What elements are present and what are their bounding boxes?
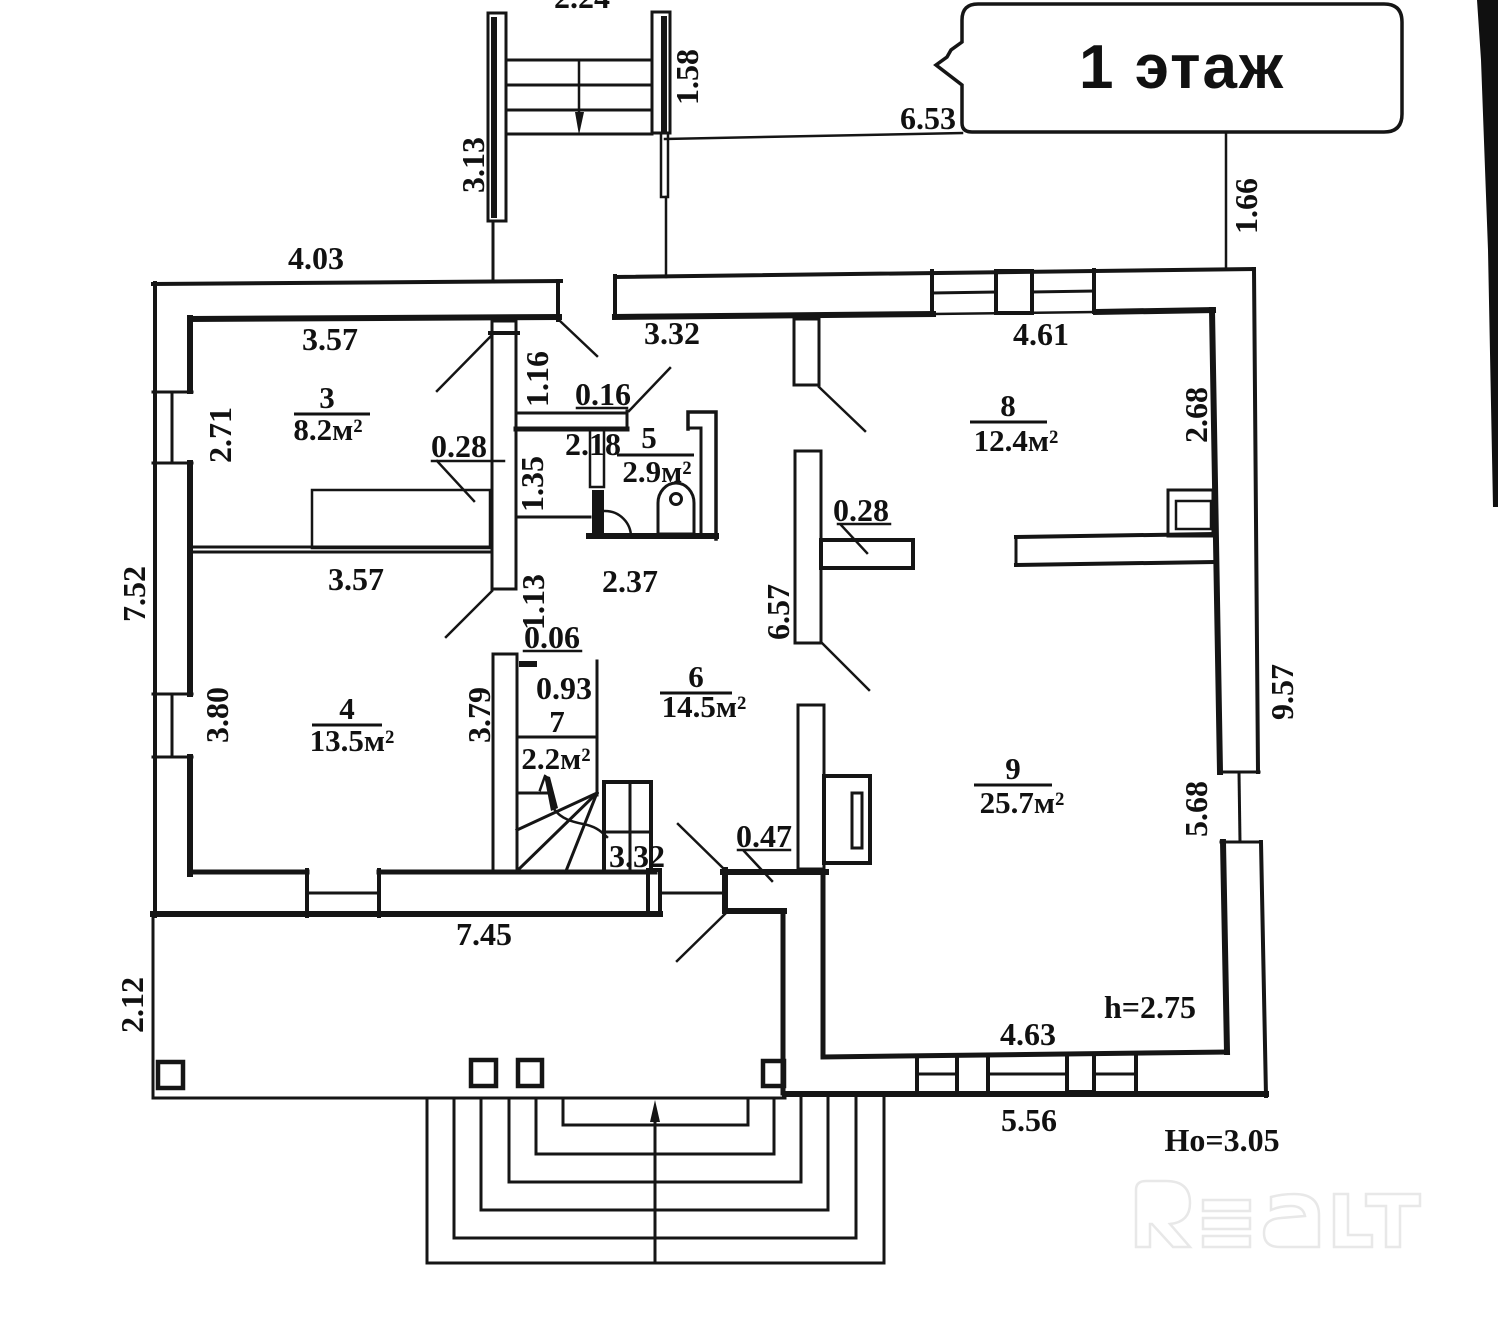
top porch right rail (652, 12, 670, 133)
toilet (658, 483, 694, 534)
room9 south window A glass (917, 1073, 957, 1076)
porch step U2 (536, 1098, 774, 1154)
top wall door jamb right (613, 276, 617, 317)
svg-text:14.5м²: 14.5м² (662, 689, 747, 724)
porch step U3 (509, 1098, 801, 1182)
porch step U4 (481, 1098, 828, 1210)
svg-text:1 этаж: 1 этаж (1079, 33, 1285, 102)
shelf wall 0.16 top line (516, 412, 627, 415)
svg-text:6.53: 6.53 (900, 100, 956, 136)
leader 0.47 (738, 850, 790, 881)
svg-text:2.12: 2.12 (114, 977, 150, 1033)
top wall window jamb 1 (930, 271, 934, 314)
top porch left rail lower line (492, 221, 495, 280)
winder fan line 3 (566, 793, 597, 871)
svg-text:0.28: 0.28 (431, 428, 487, 464)
terrace left edge (152, 916, 155, 1098)
right wall inner line lower (1223, 842, 1227, 1052)
room7 right wall (596, 661, 599, 795)
callout bubble 1 etazh (936, 4, 1402, 132)
left wall window1 top crossing (153, 391, 192, 394)
entry pier room3 (492, 321, 516, 589)
room9 south pier 2 (1067, 1054, 1094, 1092)
svg-text:0.28: 0.28 (833, 492, 889, 528)
room7 tread line 1 (517, 736, 597, 739)
top wall window jamb 2 (1092, 270, 1096, 312)
leader 0.28 right (838, 524, 890, 553)
svg-text:2.2м²: 2.2м² (521, 741, 590, 776)
underline 0.06 (524, 650, 581, 653)
top porch left rail (488, 13, 506, 221)
svg-text:0.93: 0.93 (536, 670, 592, 706)
alcove west wall (722, 870, 728, 911)
entry door leaf (560, 321, 597, 356)
top porch step 4 (506, 133, 652, 136)
room9 south window jamb 1 (915, 1056, 919, 1093)
svg-text:3.79: 3.79 (461, 687, 497, 743)
porch step U6 (427, 1098, 884, 1263)
room7 left wall (493, 654, 517, 871)
svg-text:3.80: 3.80 (199, 687, 235, 743)
winder fan line 2 (519, 793, 597, 869)
hall steps divider v (629, 782, 632, 872)
partition room8 room9 bottom line (1016, 562, 1213, 565)
right wall window top crossing (1220, 771, 1259, 774)
alcove shelf wall (725, 908, 784, 914)
alcove north wall (723, 869, 826, 875)
alcove door leaf upper (678, 824, 725, 870)
porch arrow shaft (654, 1112, 657, 1260)
svg-text:1.35: 1.35 (514, 456, 550, 512)
room9 south window B glass (988, 1073, 1067, 1076)
top porch step 1 (506, 59, 652, 62)
partition room3 room4 line a (190, 546, 492, 549)
passage east line / room9 west inner (821, 874, 826, 1055)
svg-text:2.24: 2.24 (554, 0, 610, 15)
shelf wall 0.16 bottom line (516, 427, 627, 432)
left wall outer line (153, 283, 157, 916)
left wall inner line seg3 (187, 757, 193, 874)
wall bar hall room9 (798, 705, 824, 869)
partition end cap (1015, 537, 1018, 565)
svg-text:3.32: 3.32 (644, 315, 700, 351)
top porch left rail stripe (491, 17, 497, 218)
toilet hole (671, 494, 682, 505)
top wall inner line right section b (1096, 310, 1213, 312)
room4 bottom window jamb left (305, 870, 309, 916)
left wall window1 bottom crossing (153, 462, 192, 465)
terrace post 4 (763, 1061, 784, 1086)
svg-text:7.52: 7.52 (116, 566, 152, 622)
scan artifact right edge (1477, 0, 1498, 507)
hall south door threshold (663, 892, 723, 895)
left wall window2 top crossing (153, 693, 192, 696)
terrace post 2 (471, 1060, 496, 1086)
porch step U1 (563, 1098, 748, 1125)
svg-text:2.18: 2.18 (565, 426, 621, 462)
terrace bottom edge (153, 1097, 785, 1100)
stub wall middle (795, 451, 821, 643)
svg-text:13.5м²: 13.5м² (310, 723, 395, 758)
room9 door leaf (822, 643, 869, 690)
left wall inner line seg1 (187, 318, 193, 391)
tambour floor line (516, 516, 590, 519)
right wall window bottom crossing (1221, 841, 1261, 844)
top wall window B glass line (1032, 291, 1094, 292)
svg-text:2.68: 2.68 (1178, 387, 1214, 443)
room8 door leaf (819, 387, 865, 431)
dim line 6.53 (665, 133, 962, 139)
svg-text:6.57: 6.57 (760, 584, 796, 640)
room3 door leaf (437, 335, 492, 391)
top wall pier between windows (996, 271, 1032, 313)
top wall outer line left section (153, 281, 561, 284)
room9 south window jamb 6 (1134, 1053, 1138, 1093)
winder fan line 1 (517, 793, 597, 830)
shelf wall end cap (626, 411, 629, 429)
svg-text:2.71: 2.71 (202, 407, 238, 463)
entry pier cap line (490, 331, 518, 335)
room4 bottom window jamb right (377, 870, 381, 916)
stub wall room8 top (794, 319, 819, 385)
hall steps box (604, 782, 651, 872)
svg-text:0.47: 0.47 (736, 818, 792, 854)
top porch right rail stripe (661, 16, 667, 132)
svg-text:1.16: 1.16 (519, 351, 555, 407)
svg-text:7: 7 (549, 704, 565, 739)
room9 south pier 1 (957, 1055, 988, 1093)
hall south door jamb (648, 870, 660, 915)
fireplace slot (852, 793, 862, 848)
svg-text:9: 9 (1005, 751, 1021, 786)
wc west wall upper (590, 428, 604, 487)
svg-text:3: 3 (319, 380, 335, 415)
svg-text:2.9м²: 2.9м² (622, 454, 691, 489)
porch arrow head (650, 1100, 660, 1122)
right wall outer line lower (1261, 842, 1266, 1096)
alcove door leaf lower (677, 914, 725, 961)
left wall window2 glass (171, 694, 174, 757)
partition room8 room9 top line (1016, 534, 1213, 537)
left wall window2 bottom crossing (153, 756, 192, 759)
svg-text:3.32: 3.32 (609, 838, 665, 874)
watermark realt (1136, 1181, 1420, 1247)
svg-text:3.57: 3.57 (302, 321, 358, 357)
wc south wall (589, 533, 716, 539)
stub 0.06 (519, 661, 537, 667)
room4 bottom wall inner line seg2 (379, 870, 655, 875)
top porch right rail lower bar (661, 133, 668, 197)
svg-text:8: 8 (1000, 388, 1016, 423)
callout line 1.66 (1225, 133, 1228, 268)
top porch step 2 (506, 84, 652, 87)
wc door leaf bar (592, 490, 604, 536)
room9 bottom wall outer line (785, 1091, 1266, 1097)
svg-text:Ho=3.05: Ho=3.05 (1164, 1122, 1279, 1158)
underline 0.16 (577, 407, 627, 410)
fireplace (824, 776, 870, 863)
svg-text:5: 5 (641, 420, 657, 455)
top wall window sill thin line (933, 312, 1096, 314)
svg-text:25.7м²: 25.7м² (980, 785, 1065, 820)
porch step U5 (454, 1098, 856, 1238)
svg-text:5.56: 5.56 (1001, 1102, 1057, 1138)
stair cut curve (554, 809, 607, 837)
svg-text:1.58: 1.58 (669, 49, 705, 105)
svg-text:4: 4 (339, 691, 355, 726)
svg-text:h=2.75: h=2.75 (1104, 989, 1196, 1025)
top wall inner line right section a (615, 314, 933, 317)
top wall outer line right section (615, 269, 1254, 277)
leader 0.28 left (432, 461, 504, 501)
top wall door jamb left (556, 281, 560, 320)
left wall window1 glass (171, 392, 174, 463)
top wall inner line left section (190, 317, 559, 319)
top porch right lower line (665, 197, 668, 277)
room4 bottom wall outer line (153, 911, 660, 917)
svg-text:4.03: 4.03 (288, 240, 344, 276)
right wall inner line upper (1212, 310, 1220, 772)
room4 bottom window glass (307, 892, 379, 895)
right wall window glass line (1239, 772, 1240, 842)
room9 south window C glass (1094, 1073, 1136, 1076)
top porch step 3 (506, 109, 652, 112)
svg-text:1.66: 1.66 (1228, 178, 1264, 234)
top porch arrow shaft (578, 60, 581, 116)
svg-text:0.06: 0.06 (524, 619, 580, 655)
top porch arrow head (575, 112, 584, 135)
terrace post 3 (518, 1060, 542, 1086)
terrace post 1 (158, 1062, 183, 1088)
wc east wall hook (688, 412, 716, 539)
svg-text:3.13: 3.13 (455, 137, 491, 193)
svg-text:7.45: 7.45 (456, 916, 512, 952)
partition room3 room4 line b (190, 551, 492, 554)
tambour door leaf (629, 368, 670, 411)
stair arrow barb (540, 776, 545, 790)
svg-text:9.57: 9.57 (1264, 664, 1300, 720)
svg-text:12.4м²: 12.4м² (974, 423, 1059, 458)
room7 tread line 2 (517, 792, 547, 795)
stair arrow shaft (544, 775, 558, 811)
hall steps divider h (604, 831, 651, 834)
pier 0.28 (821, 540, 913, 568)
wardrobe room3 (312, 490, 490, 548)
top wall window A glass line (932, 292, 996, 293)
room4 bottom wall inner line seg1 (190, 870, 307, 875)
niche room8 outer (1168, 490, 1213, 536)
svg-text:4.61: 4.61 (1013, 316, 1069, 352)
left wall inner line seg2 (187, 463, 193, 694)
svg-text:8.2м²: 8.2м² (293, 412, 362, 447)
passage west line (781, 911, 786, 1093)
room9 bottom wall inner line (823, 1052, 1227, 1057)
svg-text:5.68: 5.68 (1178, 781, 1214, 837)
niche room8 inner (1176, 501, 1211, 529)
wc door swing arc (605, 511, 631, 537)
svg-text:4.63: 4.63 (1000, 1016, 1056, 1052)
svg-text:2.37: 2.37 (602, 563, 658, 599)
svg-text:3.57: 3.57 (328, 561, 384, 597)
svg-text:0.16: 0.16 (575, 376, 631, 412)
wc east wall inner line (688, 428, 701, 536)
room4 door leaf (446, 591, 492, 637)
right wall outer line upper (1254, 269, 1258, 772)
